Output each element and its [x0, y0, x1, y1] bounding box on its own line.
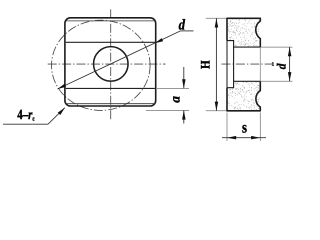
svg-text:a: a: [168, 96, 183, 103]
svg-text:d: d: [179, 18, 186, 34]
svg-text:H: H: [198, 60, 213, 69]
svg-text:4–rε: 4–rε: [17, 108, 35, 123]
svg-text:s: s: [242, 120, 247, 137]
svg-text:d: d: [275, 63, 289, 69]
